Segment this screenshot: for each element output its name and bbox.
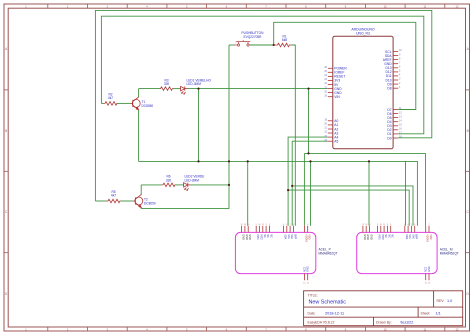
- wire H1 down to ACEL_M GND: [368, 161, 370, 225]
- arduino left pin names: [334, 67, 347, 144]
- wire A4 to ACEL_P SDA: [288, 137, 328, 226]
- node A5 branch: [291, 185, 293, 187]
- wire T2 collector up to LED2 rail: [140, 185, 142, 195]
- accel U3 bottom pin numbers: [425, 283, 431, 285]
- svg-text:NC: NC: [269, 234, 272, 238]
- pushbutton pin numbers: [235, 42, 247, 44]
- arduino right pin numbers: [399, 49, 402, 139]
- node A4 branch: [287, 189, 289, 191]
- svg-text:MMA8452QT: MMA8452QT: [319, 251, 338, 255]
- svg-text:D8: D8: [387, 87, 391, 91]
- svg-text:Drawn By:: Drawn By:: [376, 321, 392, 325]
- wire LED1 to arduino GND pin: [188, 88, 328, 90]
- svg-text:VDD: VDD: [429, 234, 432, 239]
- transistor T2: [133, 195, 143, 208]
- transistor T1: [131, 97, 141, 110]
- pushbutton SW: [235, 40, 251, 46]
- resistor R3: [159, 87, 173, 91]
- svg-text:DC8050: DC8050: [144, 202, 156, 206]
- wire rail3 pushbutton to D7: [274, 22, 416, 109]
- node H1 button: [228, 160, 230, 162]
- svg-text:NC: NC: [391, 234, 394, 238]
- svg-text:6k8: 6k8: [282, 38, 287, 42]
- accel U2 bottom pin stubs: [304, 274, 307, 281]
- svg-text:NC: NC: [263, 234, 266, 238]
- wire R6 to LED2: [176, 184, 184, 186]
- wire R3 to LED1: [173, 88, 180, 90]
- node H1 ACEL_M GND: [368, 160, 370, 162]
- svg-text:GND: GND: [363, 234, 366, 240]
- wire H1 down to ACEL_P VDD: [310, 161, 312, 225]
- node LED2/button vertical: [228, 184, 230, 186]
- wire T1 emitter down to H1: [138, 110, 140, 162]
- svg-text:D0: D0: [387, 136, 391, 140]
- frame zone ticks sides: [4, 90, 470, 253]
- svg-text:EVQ22705R: EVQ22705R: [244, 35, 263, 39]
- wire H2 rail: [304, 152, 425, 154]
- svg-text:REV:: REV:: [437, 299, 445, 303]
- accel U2 top pin names (vertical): [242, 234, 252, 240]
- node button/R1: [273, 44, 275, 46]
- node LED1/H2 link: [307, 88, 309, 90]
- accel U3 bottom pin names (vertical): [425, 266, 431, 272]
- wire T1 collector up: [138, 89, 140, 97]
- svg-text:SDA: SDA: [405, 234, 408, 239]
- svg-text:A5: A5: [334, 140, 338, 144]
- svg-text:4k7: 4k7: [111, 194, 116, 198]
- svg-text:SCL: SCL: [287, 234, 290, 239]
- frame zone letters: [5, 47, 470, 296]
- svg-text:INT2: INT2: [381, 234, 384, 240]
- svg-text:Date:: Date:: [308, 311, 316, 315]
- wire LED1 line to H2 link: [308, 89, 310, 154]
- frame zone ticks top: [48, 4, 445, 8]
- accel U3 top pin numbers: [362, 224, 431, 226]
- wire R5 lead from rail1: [95, 200, 106, 202]
- svg-text:MMA8452QT: MMA8452QT: [440, 251, 459, 255]
- svg-text:TITLE:: TITLE:: [308, 294, 318, 298]
- svg-text:GND: GND: [307, 266, 310, 272]
- svg-text:NC: NC: [387, 234, 390, 238]
- wire LED1 rail: collector to R3: [139, 88, 159, 90]
- accel U3 top pin names (vertical): [363, 234, 373, 240]
- LED D2 symbol: [183, 183, 191, 191]
- wire LED2 to pushbutton vertical: [191, 184, 230, 186]
- arduino U1 box: [333, 36, 393, 149]
- svg-text:1/1: 1/1: [436, 312, 441, 316]
- wire rail1 D0 net top: [95, 10, 431, 201]
- svg-text:SCL: SCL: [408, 234, 411, 239]
- node H1 ACEL_P VDD: [309, 160, 311, 162]
- svg-text:B: B: [467, 129, 469, 133]
- svg-text:SA0: SA0: [411, 234, 414, 239]
- svg-text:GND: GND: [245, 234, 248, 240]
- accel U3 top pin stubs: [363, 226, 429, 233]
- svg-text:INT2: INT2: [260, 234, 263, 240]
- wire rail2 D1 net top: [101, 16, 423, 134]
- svg-text:GND: GND: [366, 234, 369, 240]
- junction dots: [197, 44, 370, 191]
- resistor R5: [107, 199, 121, 203]
- arduino title: [351, 28, 375, 36]
- svg-text:GND: GND: [370, 234, 373, 240]
- svg-text:GND: GND: [242, 234, 245, 240]
- wire A5 to ACEL_P SCL: [292, 141, 328, 226]
- title block: [304, 291, 463, 326]
- resistor R6: [162, 183, 176, 187]
- svg-text:2018-12-11: 2018-12-11: [325, 312, 344, 316]
- LED D1 symbol: [180, 86, 188, 94]
- svg-text:BYP: BYP: [415, 234, 418, 239]
- wire A5 branch to ACEL_M: [292, 186, 413, 226]
- wire pushbutton left down: [141, 45, 229, 208]
- svg-text:4k7: 4k7: [108, 96, 113, 100]
- svg-text:EasyEDA V5.8.22: EasyEDA V5.8.22: [308, 321, 335, 325]
- accel U2 top pin stubs: [242, 226, 308, 233]
- accel U2 bottom pin numbers: [303, 283, 309, 285]
- wire H2 down to ACEL_M VDDIO: [425, 153, 427, 225]
- arduino left pin numbers: [324, 66, 327, 142]
- accel U2 label: [319, 248, 338, 256]
- wire pushbutton right to junction: [250, 44, 274, 46]
- node H2/link: [307, 152, 309, 154]
- wire R5 to T2 base: [121, 200, 134, 202]
- resistor R1: [274, 43, 292, 47]
- wire R2 to T1 base: [118, 102, 131, 104]
- svg-text:BYP: BYP: [293, 234, 296, 239]
- frame zone ticks bottom: [48, 327, 445, 331]
- arduino left pin stubs: [328, 68, 333, 141]
- svg-text:330: 330: [166, 178, 172, 182]
- wire LED1 junction down to H1: [198, 89, 200, 162]
- svg-text:tiezzi22: tiezzi22: [401, 321, 414, 325]
- resistor R2: [104, 102, 118, 106]
- wire H2 down to ACEL_P VDDIO: [303, 153, 305, 225]
- wire H1 ground rail: [139, 160, 406, 162]
- wire pushbutton left stub: [229, 44, 235, 46]
- svg-text:VIN: VIN: [334, 95, 340, 99]
- arduino right pin names: [383, 50, 393, 141]
- svg-text:NC: NC: [266, 234, 269, 238]
- wire LED2 rail to R6: [141, 184, 161, 186]
- svg-text:Sheet:: Sheet:: [421, 311, 431, 315]
- accel U2 bottom pin names (vertical): [303, 266, 309, 272]
- svg-text:New Schematic: New Schematic: [309, 299, 347, 305]
- accel U3 box: [357, 232, 437, 273]
- svg-text:VDD: VDD: [308, 234, 311, 239]
- svg-text:1.0: 1.0: [447, 299, 452, 303]
- svg-text:UNO_R3: UNO_R3: [356, 31, 370, 35]
- svg-text:NC: NC: [384, 234, 387, 238]
- accel U3 bottom pin stubs: [426, 274, 429, 281]
- svg-text:B: B: [5, 129, 7, 133]
- wire R2 lead from rail2: [101, 102, 103, 104]
- wire A4 branch to ACEL_M: [288, 190, 409, 226]
- wire R1 out down to ACEL_P: [292, 45, 296, 226]
- arduino right pin stubs: [393, 52, 398, 139]
- svg-text:INT1: INT1: [378, 234, 381, 240]
- svg-text:LED-3MM: LED-3MM: [185, 178, 200, 182]
- svg-text:VDDIO: VDDIO: [426, 234, 429, 242]
- svg-text:VDDIO: VDDIO: [304, 234, 307, 242]
- svg-text:DC8050: DC8050: [142, 104, 154, 108]
- node H1 x198: [197, 160, 199, 162]
- svg-text:GND: GND: [428, 266, 431, 272]
- node H1 ACEL_P GND: [247, 160, 249, 162]
- svg-text:330: 330: [164, 82, 170, 86]
- svg-text:SA0: SA0: [290, 234, 293, 239]
- svg-text:LED-3MM: LED-3MM: [187, 82, 202, 86]
- svg-text:SDA: SDA: [284, 234, 287, 239]
- node LED1/down: [197, 88, 199, 90]
- accel U2 top pin numbers: [240, 224, 309, 226]
- wire H1 tail to ACEL_M pins: [405, 161, 407, 225]
- accel U2 box: [235, 232, 315, 273]
- svg-text:INT1: INT1: [256, 234, 259, 240]
- wire H1 down to ACEL_P GND: [247, 161, 249, 225]
- svg-text:GND: GND: [248, 234, 251, 240]
- accel U3 label: [440, 248, 459, 256]
